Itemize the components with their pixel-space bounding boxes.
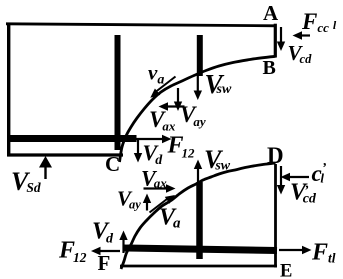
arrow V_d lower (up) xyxy=(122,239,124,253)
right edge A-B xyxy=(274,24,277,58)
head V_a lower xyxy=(165,195,175,204)
tension chord bar (lower body) xyxy=(124,248,277,251)
stirrup lower part xyxy=(196,182,203,259)
head F_12 upper xyxy=(162,135,172,143)
head V_Sd xyxy=(39,156,52,168)
arrow V_cd (down) xyxy=(280,27,282,43)
beam left edge xyxy=(7,24,10,157)
arrow c1' (left) xyxy=(288,176,309,178)
svg-text:Vsw: Vsw xyxy=(205,69,232,99)
arrow F_cc1 (left) xyxy=(296,34,310,36)
svg-text:Vsw: Vsw xyxy=(204,145,231,174)
head V_cd xyxy=(277,42,285,52)
stirrup 1 (upper body) xyxy=(115,35,121,150)
svg-text:Vax: Vax xyxy=(141,166,167,191)
head F_12 lower xyxy=(91,247,101,255)
arrow V_ax upper (left) xyxy=(166,105,185,107)
head F_tl xyxy=(302,246,312,254)
stirrup 2 upper part xyxy=(197,35,203,76)
arrow V_sw upper (down) xyxy=(197,73,199,92)
arrow V_sw lower (up) xyxy=(197,168,199,183)
head V_ay lower xyxy=(143,194,151,204)
bottom edge (lower body) xyxy=(120,265,277,268)
arrow V_d upper (down) xyxy=(137,140,139,155)
svg-text:va: va xyxy=(148,61,164,88)
arrow V_a lower (diagonal up-right) xyxy=(150,199,168,213)
head v_a xyxy=(150,89,160,98)
svg-text:B: B xyxy=(263,57,276,79)
head V_d lower xyxy=(119,231,127,241)
svg-text:Vcd: Vcd xyxy=(288,41,313,66)
crack curve B-C xyxy=(120,56,276,162)
svg-text:Vay: Vay xyxy=(180,102,206,129)
head V_ax upper xyxy=(159,102,169,110)
svg-text:C: C xyxy=(105,152,120,176)
arrow V_ax lower (right) xyxy=(144,187,168,189)
svg-text:F12: F12 xyxy=(58,238,87,266)
longitudinal bar (upper body) xyxy=(7,135,136,142)
svg-text:Ftl: Ftl xyxy=(311,240,336,266)
svg-text:E: E xyxy=(280,262,292,279)
lower body crack curve F-D xyxy=(121,163,276,269)
arrow F_12 lower (left) xyxy=(100,250,121,252)
svg-text:Vd: Vd xyxy=(143,140,164,168)
arrow F_tl (right) xyxy=(279,249,303,251)
svg-text:Vax: Vax xyxy=(149,107,176,134)
head F_cc1 xyxy=(293,31,303,39)
arrow V_ay lower (up) xyxy=(146,202,148,211)
head V'_cd xyxy=(277,185,285,195)
svg-text:A: A xyxy=(263,1,279,25)
svg-text:F12: F12 xyxy=(167,133,196,161)
svg-text:VSd: VSd xyxy=(11,167,41,196)
svg-text:Vd: Vd xyxy=(92,219,114,247)
head V_sw upper xyxy=(194,91,202,101)
arrow V_ay upper (down) xyxy=(177,88,179,103)
arrow V_Sd (up) xyxy=(44,166,46,179)
svg-text:c’l: c’l xyxy=(312,161,327,186)
svg-text:Fccl: Fccl xyxy=(301,9,337,35)
head V_ax lower xyxy=(166,184,176,192)
arrow F_12 upper (right) xyxy=(135,138,164,140)
arrow V'_cd (down) xyxy=(280,166,282,186)
head V_sw lower xyxy=(194,160,202,170)
arrow v_a (diagonal down-left) xyxy=(154,77,176,94)
svg-text:Vay: Vay xyxy=(117,187,141,212)
svg-text:D: D xyxy=(267,143,284,168)
beam bottom edge (upper body) xyxy=(7,153,123,156)
svg-text:F: F xyxy=(98,251,111,275)
right edge D-E xyxy=(274,164,277,268)
svg-text:Va: Va xyxy=(159,205,181,232)
head c1' xyxy=(281,173,291,181)
head V_ay upper xyxy=(174,102,182,112)
beam top edge xyxy=(6,24,277,26)
head V_d upper xyxy=(134,153,142,163)
